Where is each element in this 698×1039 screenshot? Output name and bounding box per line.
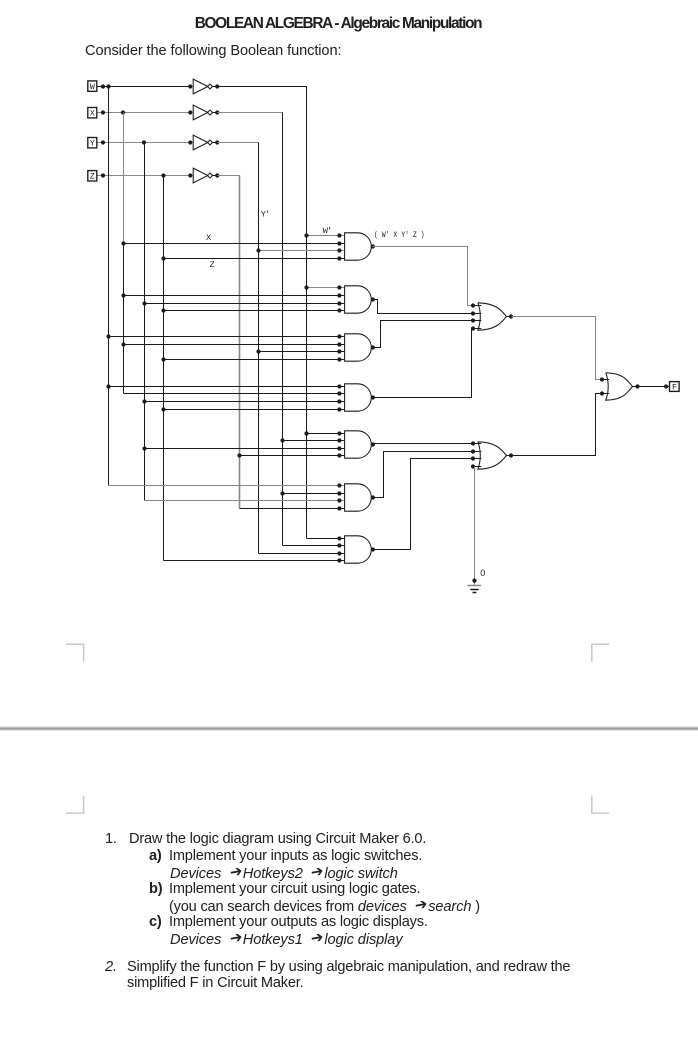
svg-text:X: X (90, 110, 95, 119)
AND U2 pin 1 dot (337, 285, 341, 289)
wire Y to AND U4 pin 3 (145, 401, 345, 403)
OR gate O3 (606, 373, 633, 400)
svg-text:0: 0 (480, 568, 485, 578)
inverter UZ input dot (188, 173, 192, 177)
junction Y tap U4.3 (142, 399, 146, 403)
AND U2 pin 3 dot (337, 301, 341, 305)
wire Y to AND U2 pin 3 (145, 303, 345, 305)
junction W' tap U2.1 (304, 285, 308, 289)
logic switch X (88, 108, 97, 118)
AND U6 pin 4 dot (337, 506, 341, 510)
wire Z to AND U4 pin 4 (164, 409, 345, 411)
logic switch W (88, 81, 97, 91)
svg-text:Y': Y' (261, 209, 269, 219)
AND U3 pin 2 dot (337, 342, 341, 346)
wire W' vertical bus (306, 87, 308, 539)
wire U6 out to OR O2 in2 (373, 452, 474, 498)
AND U4 pin 1 dot (337, 384, 341, 388)
svg-text:( W' X Y' Z ): ( W' X Y' Z ) (374, 230, 425, 240)
inverter UW output dot (212, 86, 220, 88)
ground junction dot (472, 579, 476, 583)
OR O2 pin 2 (473, 451, 481, 453)
junction W tap U4.1 (106, 384, 110, 388)
AND U7 pin 3 dot (337, 551, 341, 555)
junction X tap U3.2 (121, 342, 125, 346)
wire X vertical bus (123, 113, 125, 244)
wire U5 out to OR O2 in1 (373, 443, 473, 445)
AND gate U6 (345, 484, 372, 511)
junction Z tap U3.4 (161, 357, 165, 361)
ground symbol (467, 585, 481, 587)
page 2 top-left margin mark (66, 796, 84, 814)
junction Z vertical tap (161, 173, 165, 177)
AND U2 pin 4 dot (337, 308, 341, 312)
junction X tap U2.2 (121, 293, 125, 297)
wire U1 out to OR O1 in1 (373, 247, 474, 306)
AND U5 pin 3 dot (337, 446, 341, 450)
wire Z' to AND U5 pin 4 (240, 455, 345, 457)
AND U1 output dot (371, 244, 375, 248)
wire Y to AND U5 pin 3 (145, 448, 345, 450)
wire Z switch to inverter (97, 175, 191, 177)
AND U7 pin 2 dot (337, 543, 341, 547)
wire U4 out to OR O1 in4 (373, 329, 474, 398)
wire Z to AND U7 pin 4 (164, 560, 345, 562)
wire Z to AND U2 pin 4 (164, 310, 345, 312)
junction Z tap U2.4 (161, 308, 165, 312)
wire W vertical bus (108, 87, 110, 486)
junction X tap U1.2 (121, 241, 125, 245)
wire X to AND U1 pin 2 (124, 243, 345, 245)
OR O3 pin 1 (602, 379, 609, 381)
junction Z tap U4.4 (161, 407, 165, 411)
wire U2 out to OR O1 in2 (373, 300, 474, 314)
junction W' tap U1.1 (304, 233, 308, 237)
wire W' to AND U5 pin 1 (307, 433, 345, 435)
node Y pin dot (101, 140, 105, 144)
svg-text:Z: Z (90, 173, 95, 182)
OR O3 pin 2 (602, 393, 609, 395)
wire X to AND U4 pin 2 (124, 393, 345, 395)
wire U7 out to OR O2 in3 (373, 459, 474, 550)
AND U7 output dot (371, 547, 375, 551)
AND U3 pin 3 dot (337, 349, 341, 353)
wire Y vertical bus (144, 143, 146, 501)
logic switch Z (88, 171, 97, 181)
svg-text:W': W' (323, 226, 331, 236)
wire W' to AND U2 pin 1 (307, 287, 345, 289)
wire O1 out to OR O3 in1 (512, 317, 603, 380)
inverter UX output dot (212, 112, 220, 114)
AND U5 output dot (371, 442, 375, 446)
AND gate U7 (345, 536, 372, 563)
AND U7 pin 1 dot (337, 536, 341, 540)
OR O2 pin 3 (473, 458, 481, 460)
AND U1 pin 3 dot (337, 248, 341, 252)
svg-text:X: X (206, 233, 211, 243)
AND U6 pin 1 dot (337, 483, 341, 487)
OR O2 output dot (507, 455, 515, 457)
wire Y to AND U6 pin 3 (145, 500, 345, 502)
AND U7 pin 4 dot (337, 558, 341, 562)
AND U6 pin 3 dot (337, 498, 341, 502)
wire U3 out to OR O1 in3 (373, 321, 474, 348)
page 2 top-right margin mark (592, 796, 609, 814)
inverter UZ output dot (212, 175, 220, 177)
AND U2 pin 2 dot (337, 293, 341, 297)
AND U4 pin 3 dot (337, 399, 341, 403)
svg-text:Y: Y (90, 140, 95, 149)
wire Z' to AND U6 pin 4 (240, 508, 345, 510)
svg-text:W: W (90, 83, 95, 92)
OR O1 pin 1 (473, 305, 481, 307)
OR O3 output dot (633, 386, 641, 388)
AND U1 pin 1 dot (337, 233, 341, 237)
inverter UX input dot (188, 110, 192, 114)
junction Y tap U5.3 (142, 446, 146, 450)
wire X' to AND U7 pin 2 (283, 545, 345, 547)
node W pin dot (101, 84, 105, 88)
wire Z to AND U1 pin 4 (164, 258, 345, 260)
junction Y' tap U3.3 (256, 349, 260, 353)
inverter UW input dot (188, 84, 192, 88)
AND U6 output dot (371, 495, 375, 499)
AND U3 pin 1 dot (337, 334, 341, 338)
node X pin dot (101, 110, 105, 114)
inverter UY (193, 135, 208, 150)
wire W switch to inverter (97, 86, 191, 88)
wire W to AND U6 pin 1 (109, 485, 345, 487)
junction Y tap U2.3 (142, 301, 146, 305)
wire Y' to AND U1 pin 3 (259, 250, 345, 252)
wire W to AND U3 pin 1 (109, 336, 345, 338)
AND U4 pin 2 dot (337, 391, 341, 395)
junction W vertical tap (106, 84, 110, 88)
OR O2 pin 4 (473, 466, 481, 468)
AND gate U2 (345, 286, 372, 313)
junction Z' tap U5.4 (237, 453, 241, 457)
inverter UY input dot (188, 140, 192, 144)
wire X' vertical bus (282, 113, 284, 546)
wire O2 out to OR O3 in2 (512, 394, 603, 456)
wire Z' inverter output to vertical (217, 175, 240, 177)
wire Y switch to inverter (97, 142, 191, 144)
wire X' to AND U5 pin 2 (283, 440, 345, 442)
wire Y' vertical bus (258, 143, 260, 554)
junction X vertical tap (121, 110, 125, 114)
wire X' inverter output to vertical (217, 112, 283, 114)
node F pin dot (664, 384, 668, 388)
page 1 bottom-left margin mark (66, 644, 84, 661)
AND U4 pin 4 dot (337, 407, 341, 411)
OR gate O2 (478, 442, 507, 469)
wire W' to AND U1 pin 1 (307, 235, 345, 237)
wire W to AND U4 pin 1 (109, 386, 345, 388)
logic switch Y (88, 138, 97, 148)
AND U6 pin 2 dot (337, 491, 341, 495)
AND U2 output dot (371, 297, 375, 301)
wire Y' inverter output to vertical (217, 142, 259, 144)
OR O2 pin 1 (473, 443, 481, 445)
junction X' tap U6.2 (280, 491, 284, 495)
junction W' tap U5.1 (304, 431, 308, 435)
OR O1 pin 4 (473, 328, 481, 330)
junction Y' tap U1.3 (256, 248, 260, 252)
node Z pin dot (101, 173, 105, 177)
OR O1 pin 2 (473, 313, 481, 315)
wire Z vertical bus (163, 176, 165, 561)
junction W tap U3.1 (106, 334, 110, 338)
AND U3 pin 4 dot (337, 357, 341, 361)
wire X switch to inverter (97, 112, 191, 114)
AND U5 pin 4 dot (337, 453, 341, 457)
junction X' tap U5.2 (280, 438, 284, 442)
OR gate O1 (478, 303, 507, 330)
AND U3 output dot (371, 345, 375, 349)
AND gate U3 (345, 334, 372, 361)
AND U5 pin 1 dot (337, 431, 341, 435)
svg-text:F: F (672, 383, 677, 392)
wire Y' to AND U7 pin 3 (259, 553, 345, 555)
wire X to AND U3 pin 2 (124, 344, 345, 346)
wire W' inverter output to vertical (217, 86, 307, 88)
inverter UZ (193, 168, 208, 183)
page separator line (0, 727, 698, 728)
OR O1 pin 3 (473, 320, 481, 322)
junction Y vertical tap (142, 140, 146, 144)
AND gate U1 (345, 233, 372, 260)
inverter UX (193, 105, 208, 120)
AND U5 pin 2 dot (337, 438, 341, 442)
wire Z' vertical bus (239, 176, 241, 509)
AND U1 pin 2 dot (337, 241, 341, 245)
wire Z to AND U3 pin 4 (164, 359, 345, 361)
AND U1 pin 4 dot (337, 256, 341, 260)
wire W' to AND U7 pin 1 (307, 538, 345, 540)
wire ground to OR O2 in4 (474, 467, 476, 586)
wire Y' to AND U3 pin 3 (259, 351, 345, 353)
OR O1 output dot (507, 316, 515, 318)
AND gate U5 (345, 431, 372, 458)
logic display F (670, 382, 680, 392)
wire X to AND U2 pin 2 (124, 295, 345, 297)
inverter UY output dot (212, 142, 220, 144)
AND U4 output dot (371, 395, 375, 399)
page 1 bottom-right margin mark (592, 644, 609, 661)
wire O3 out to display F (638, 386, 670, 388)
svg-text:Z: Z (210, 260, 215, 270)
junction Z tap U1.4 (161, 256, 165, 260)
AND gate U4 (345, 384, 372, 411)
inverter UW (193, 79, 208, 94)
wire X' to AND U6 pin 2 (283, 493, 345, 495)
